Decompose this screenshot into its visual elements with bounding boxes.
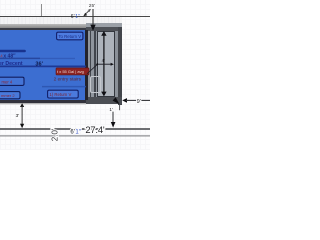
svg-text:3': 3' <box>16 113 20 119</box>
svg-text:6': 6' <box>71 14 75 20</box>
svg-text:1″: 1″ <box>75 14 80 20</box>
svg-text:1) Return V: 1) Return V <box>49 92 71 97</box>
svg-text:1': 1' <box>109 107 113 112</box>
svg-text:x 48″: x 48″ <box>3 53 16 59</box>
svg-text:27.4': 27.4' <box>85 124 104 135</box>
svg-text:mmer 2: mmer 2 <box>1 93 15 98</box>
svg-text:To Return V: To Return V <box>58 34 81 39</box>
svg-text:2.0': 2.0' <box>50 128 59 141</box>
svg-text:4': 4' <box>102 58 105 63</box>
svg-text:2 entry stairs: 2 entry stairs <box>54 77 82 83</box>
svg-text:1″: 1″ <box>75 130 81 136</box>
svg-text:t x 55 Gal | avg: t x 55 Gal | avg <box>57 69 84 74</box>
svg-text:6': 6' <box>70 130 74 136</box>
svg-text:mer 4: mer 4 <box>2 79 13 84</box>
svg-text:9': 9' <box>137 99 141 105</box>
svg-text:er Decent: er Decent <box>0 61 23 67</box>
svg-text:36': 36' <box>35 62 43 68</box>
